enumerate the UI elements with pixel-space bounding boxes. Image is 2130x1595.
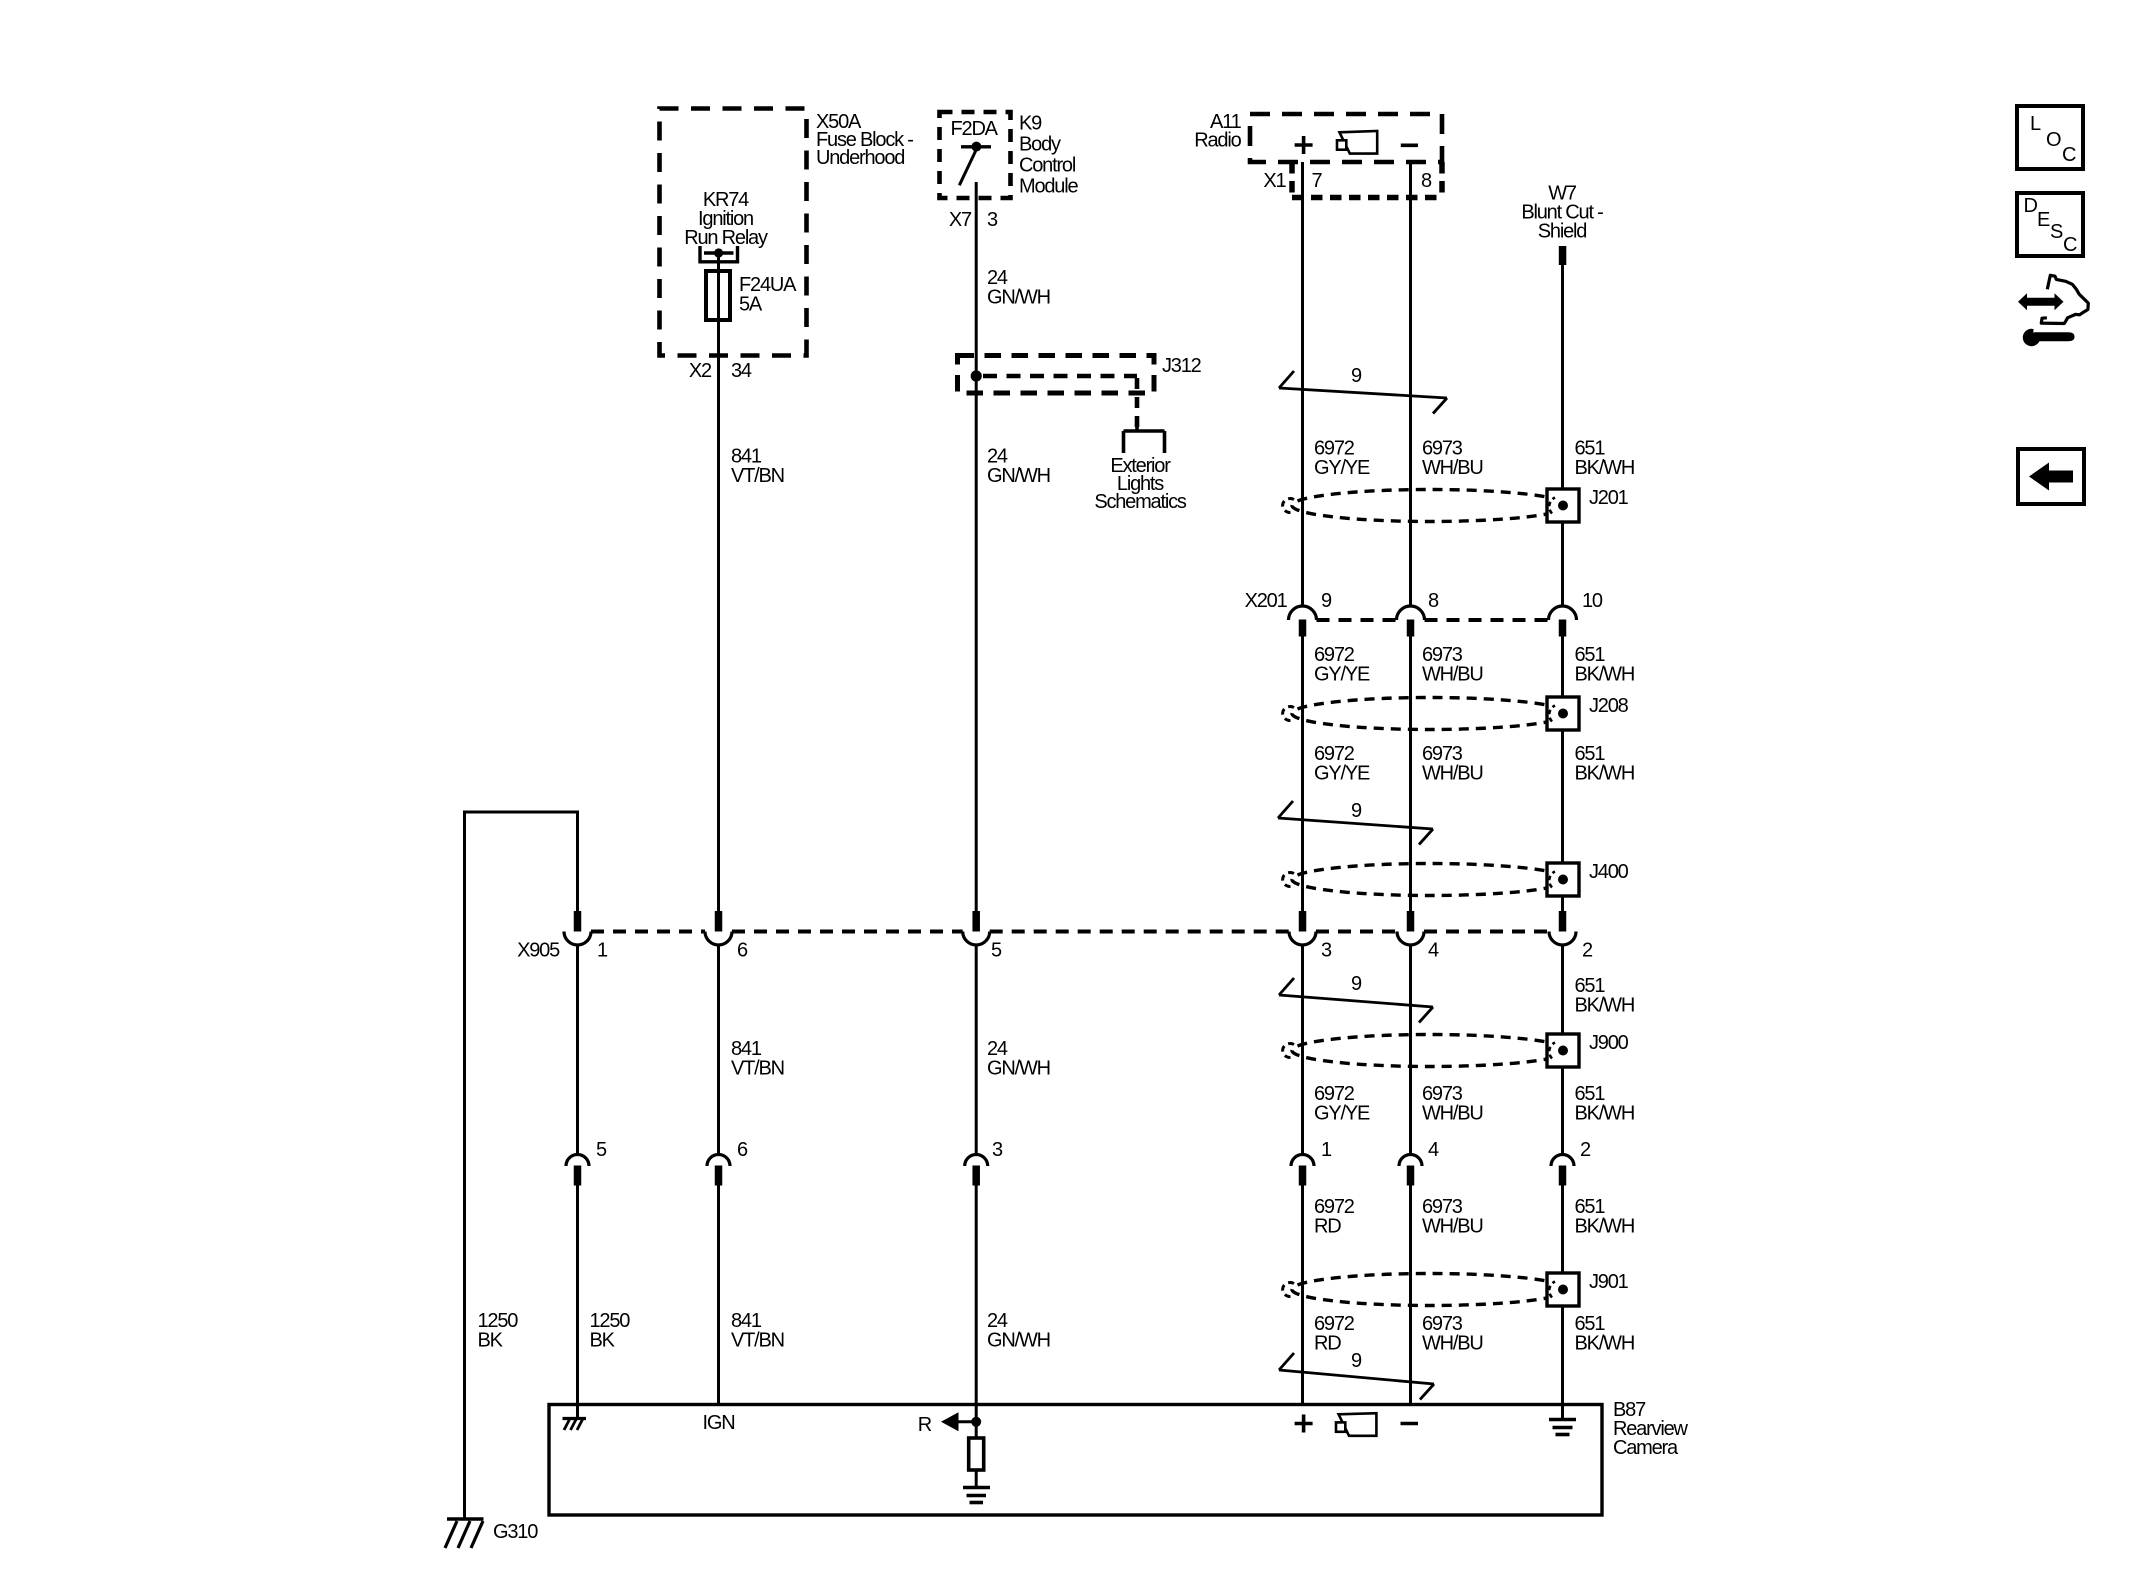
twist marker below radio bbox=[1279, 371, 1447, 414]
svg-text:BK: BK bbox=[478, 1330, 504, 1352]
wire 6973 WH/BU segment (connector to B87) bbox=[1409, 1186, 1412, 1405]
twisted pair ellipse to J400 bbox=[1292, 864, 1568, 896]
plus terminal (camera) bbox=[1295, 1415, 1313, 1433]
node R reverse signal arrow bbox=[918, 1412, 981, 1436]
svg-text:Module: Module bbox=[1019, 176, 1078, 198]
svg-text:Schematics: Schematics bbox=[1094, 491, 1187, 513]
svg-text:9: 9 bbox=[1351, 1350, 1362, 1372]
twist marker above J400 bbox=[1278, 801, 1433, 845]
wire 651 BK/WH segment (connector to B87) bbox=[1561, 1186, 1564, 1405]
svg-text:GY/YE: GY/YE bbox=[1314, 763, 1370, 785]
svg-text:8: 8 bbox=[1428, 590, 1439, 612]
connector X905 pin 2 terminal bbox=[1549, 911, 1576, 945]
svg-text:X201: X201 bbox=[1245, 590, 1288, 612]
svg-text:J901: J901 bbox=[1589, 1271, 1629, 1293]
svg-text:Run Relay: Run Relay bbox=[684, 227, 768, 249]
svg-text:GN/WH: GN/WH bbox=[987, 465, 1050, 487]
splice J208 bbox=[1547, 697, 1579, 730]
wire 6972 RD segment (connector to B87) bbox=[1301, 1186, 1304, 1405]
blunt cut terminal W7 bbox=[1559, 246, 1567, 265]
svg-text:2: 2 bbox=[1582, 940, 1593, 962]
svg-text:L: L bbox=[2030, 113, 2041, 135]
repair instructions icon (arrow, outline, wrench) bbox=[2018, 275, 2088, 346]
connector X201 pin 10 terminal bbox=[1549, 606, 1577, 636]
svg-text:34: 34 bbox=[731, 360, 752, 382]
relay KR74 contact bbox=[698, 246, 739, 262]
connector X201 pin 9 terminal bbox=[1289, 606, 1317, 636]
svg-text:4: 4 bbox=[1428, 940, 1439, 962]
J312 internal bus bbox=[983, 376, 1137, 427]
svg-text:X905: X905 bbox=[517, 940, 560, 962]
inline connector pin 5 terminal bbox=[566, 1155, 589, 1186]
svg-text:BK: BK bbox=[590, 1330, 616, 1352]
connector X1 strip of radio bbox=[1292, 162, 1443, 198]
wire 6973 WH/BU segment (X905 to connector) bbox=[1409, 946, 1412, 1155]
svg-text:5A: 5A bbox=[739, 294, 763, 316]
inline connector pin 3 terminal bbox=[965, 1155, 988, 1186]
connector X905 pin 6 terminal bbox=[705, 911, 732, 945]
svg-text:F2DA: F2DA bbox=[951, 118, 999, 140]
svg-text:C: C bbox=[2063, 234, 2077, 256]
connector X905 pin 1 terminal bbox=[564, 911, 591, 945]
svg-text:R: R bbox=[918, 1414, 932, 1436]
svg-text:VT/BN: VT/BN bbox=[731, 1330, 784, 1352]
svg-text:RD: RD bbox=[1314, 1333, 1341, 1355]
earth ground shield (camera internal) bbox=[1549, 1404, 1576, 1435]
connector X905 pin 3 terminal bbox=[1289, 911, 1316, 945]
wire resistor to ground bbox=[975, 1470, 978, 1488]
svg-text:Body: Body bbox=[1019, 134, 1061, 156]
svg-text:Shield: Shield bbox=[1538, 221, 1586, 243]
svg-text:X1: X1 bbox=[1263, 170, 1286, 192]
wire 841 VT/BN segment (X905 to connector) bbox=[717, 946, 720, 1155]
svg-text:5: 5 bbox=[596, 1139, 607, 1161]
body control module K9 connector F2DA dashed box bbox=[940, 112, 1011, 198]
splice J901 bbox=[1547, 1273, 1579, 1306]
connector X905 pin 4 terminal bbox=[1397, 911, 1424, 945]
svg-text:VT/BN: VT/BN bbox=[731, 1058, 784, 1080]
svg-text:WH/BU: WH/BU bbox=[1422, 457, 1483, 479]
svg-text:BK/WH: BK/WH bbox=[1575, 1103, 1635, 1125]
splice pack J312 dashed box bbox=[958, 356, 1155, 394]
svg-text:J900: J900 bbox=[1589, 1032, 1629, 1054]
wire 6973 WH/BU segment (radio to X201) bbox=[1409, 162, 1412, 607]
DESC box icon bbox=[2017, 193, 2083, 256]
minus terminal (radio) bbox=[1401, 144, 1418, 148]
svg-text:WH/BU: WH/BU bbox=[1422, 763, 1483, 785]
twisted pair ellipse to J208 bbox=[1292, 698, 1568, 730]
svg-text:WH/BU: WH/BU bbox=[1422, 664, 1483, 686]
svg-text:6: 6 bbox=[737, 1139, 748, 1161]
svg-text:J208: J208 bbox=[1589, 695, 1629, 717]
twist marker above B87 bbox=[1279, 1353, 1434, 1400]
svg-text:GY/YE: GY/YE bbox=[1314, 664, 1370, 686]
wire 24 GN/WH segment (F2DA to X905) bbox=[975, 182, 978, 911]
splice J400 bbox=[1547, 863, 1579, 896]
svg-text:9: 9 bbox=[1321, 590, 1332, 612]
wire 841 VT/BN segment (connector to B87) bbox=[717, 1186, 720, 1405]
svg-text:GN/WH: GN/WH bbox=[987, 1330, 1050, 1352]
inline connector pin 6 terminal bbox=[707, 1155, 730, 1186]
svg-text:GN/WH: GN/WH bbox=[987, 1058, 1050, 1080]
svg-text:BK/WH: BK/WH bbox=[1575, 1216, 1635, 1238]
svg-text:BK/WH: BK/WH bbox=[1575, 664, 1635, 686]
twisted pair ellipse to J900 bbox=[1292, 1035, 1568, 1067]
ground G310 bbox=[445, 1519, 484, 1548]
svg-text:Radio: Radio bbox=[1194, 130, 1241, 152]
svg-text:K9: K9 bbox=[1019, 113, 1042, 135]
svg-text:5: 5 bbox=[991, 940, 1002, 962]
svg-text:3: 3 bbox=[992, 1139, 1003, 1161]
svg-text:BK/WH: BK/WH bbox=[1575, 1333, 1635, 1355]
wire 1250 BK segment (X905 to connector) bbox=[576, 946, 579, 1155]
camera symbol (radio) bbox=[1337, 131, 1377, 154]
svg-text:8: 8 bbox=[1421, 170, 1432, 192]
minus terminal (camera) bbox=[1401, 1422, 1419, 1426]
svg-text:WH/BU: WH/BU bbox=[1422, 1333, 1483, 1355]
svg-text:IGN: IGN bbox=[703, 1412, 735, 1434]
rearview camera B87 box bbox=[549, 1405, 1602, 1516]
wire 24 GN/WH segment (connector to B87) bbox=[975, 1186, 978, 1405]
svg-text:1: 1 bbox=[597, 940, 608, 962]
off-page bracket to Exterior Lights Schematics bbox=[1124, 427, 1165, 453]
svg-text:7: 7 bbox=[1312, 170, 1323, 192]
svg-text:Camera: Camera bbox=[1613, 1437, 1679, 1459]
svg-text:BK/WH: BK/WH bbox=[1575, 995, 1635, 1017]
svg-text:2: 2 bbox=[1580, 1139, 1591, 1161]
svg-text:GN/WH: GN/WH bbox=[987, 287, 1050, 309]
svg-text:WH/BU: WH/BU bbox=[1422, 1216, 1483, 1238]
wire 651 BK/WH segment (X905 to connector) bbox=[1561, 946, 1564, 1155]
wire 651 BK/WH segment (W7 to X201) bbox=[1561, 265, 1564, 607]
svg-text:RD: RD bbox=[1314, 1216, 1341, 1238]
svg-text:1: 1 bbox=[1321, 1139, 1332, 1161]
svg-text:Control: Control bbox=[1019, 155, 1076, 177]
svg-text:4: 4 bbox=[1428, 1139, 1439, 1161]
svg-text:GY/YE: GY/YE bbox=[1314, 457, 1370, 479]
wire 841 VT/BN segment (relay to X905) bbox=[717, 253, 720, 911]
junction dot J312 on 24 GN/WH bbox=[971, 370, 982, 381]
fuse F24UA 5A bbox=[706, 271, 730, 320]
connector X201 pin 8 terminal bbox=[1397, 606, 1425, 636]
wire 651 BK/WH segment (X201 to X905) bbox=[1561, 636, 1564, 911]
svg-text:E: E bbox=[2037, 209, 2050, 231]
back arrow box icon bbox=[2018, 449, 2084, 504]
wire 6973 WH/BU segment (X201 to X905) bbox=[1409, 636, 1412, 911]
svg-text:BK/WH: BK/WH bbox=[1575, 457, 1635, 479]
earth ground (camera internal) bbox=[963, 1488, 990, 1503]
svg-text:S: S bbox=[2050, 221, 2063, 243]
wire ground 1250 BK left riser bbox=[465, 812, 578, 1519]
svg-text:G310: G310 bbox=[493, 1521, 538, 1543]
radio A11 dashed box bbox=[1250, 114, 1442, 162]
wire 6972 GY/YE segment (X905 to connector) bbox=[1301, 946, 1304, 1155]
camera symbol (B87) bbox=[1336, 1413, 1376, 1436]
svg-text:C: C bbox=[2062, 144, 2076, 166]
connector X905 dashed line bbox=[591, 930, 705, 934]
svg-text:9: 9 bbox=[1351, 365, 1362, 387]
twisted pair ellipse to J901 bbox=[1292, 1274, 1568, 1306]
wire 6972 GY/YE segment (X201 to X905) bbox=[1301, 636, 1304, 911]
connector X905 pin 5 terminal bbox=[963, 911, 990, 945]
resistor (camera internal) bbox=[969, 1438, 984, 1470]
svg-text:3: 3 bbox=[987, 209, 998, 231]
plus terminal (radio) bbox=[1295, 136, 1313, 154]
wire 24 GN/WH segment (X905 to connector) bbox=[975, 946, 978, 1155]
splice J201 bbox=[1547, 489, 1579, 522]
LOC box icon bbox=[2017, 106, 2083, 169]
svg-text:Underhood: Underhood bbox=[816, 147, 904, 169]
wire 6972 GY/YE segment (radio to X201) bbox=[1301, 162, 1304, 607]
svg-text:J201: J201 bbox=[1589, 487, 1629, 509]
svg-text:9: 9 bbox=[1351, 973, 1362, 995]
twist marker above J900 bbox=[1279, 978, 1433, 1023]
svg-text:3: 3 bbox=[1321, 940, 1332, 962]
svg-text:6: 6 bbox=[737, 940, 748, 962]
inline connector pin 1 terminal bbox=[1291, 1155, 1314, 1186]
svg-text:J400: J400 bbox=[1589, 861, 1629, 883]
chassis ground inside B87 bbox=[563, 1404, 587, 1430]
inline connector pin 4 terminal bbox=[1399, 1155, 1422, 1186]
svg-text:X7: X7 bbox=[949, 209, 972, 231]
svg-text:GY/YE: GY/YE bbox=[1314, 1103, 1370, 1125]
svg-text:10: 10 bbox=[1582, 590, 1603, 612]
svg-text:O: O bbox=[2046, 129, 2061, 151]
fuse block X50A dashed box bbox=[660, 109, 807, 356]
connector X201 dashed line bbox=[1317, 618, 1397, 622]
splice J900 bbox=[1547, 1034, 1579, 1067]
svg-text:WH/BU: WH/BU bbox=[1422, 1103, 1483, 1125]
svg-text:J312: J312 bbox=[1162, 355, 1202, 377]
svg-text:D: D bbox=[2024, 195, 2038, 217]
svg-text:X2: X2 bbox=[689, 360, 712, 382]
wire inside B87 to resistor bbox=[975, 1405, 978, 1439]
svg-text:VT/BN: VT/BN bbox=[731, 465, 784, 487]
wire 1250 BK segment (connector to B87) bbox=[576, 1186, 579, 1405]
inline connector pin 2 terminal bbox=[1551, 1155, 1574, 1186]
svg-text:BK/WH: BK/WH bbox=[1575, 763, 1635, 785]
svg-text:9: 9 bbox=[1351, 800, 1362, 822]
switch (driver output) inside F2DA bbox=[959, 142, 991, 186]
twisted pair ellipse to J201 bbox=[1292, 490, 1568, 522]
